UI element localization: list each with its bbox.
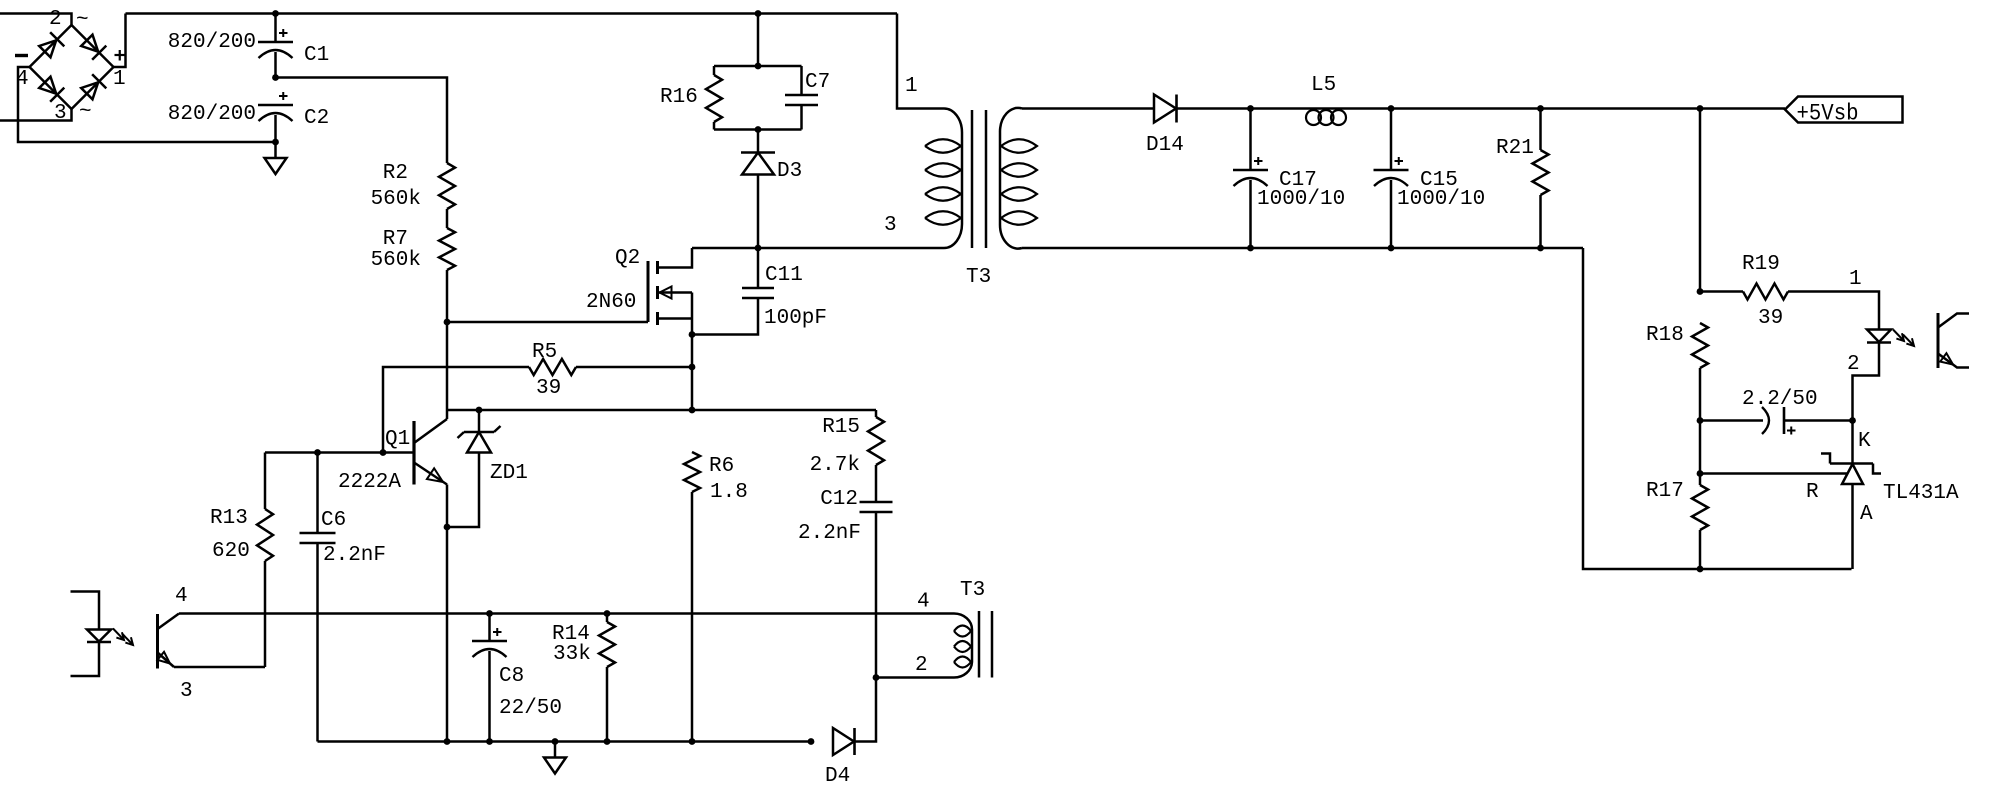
optocoupler2 emitter — [158, 653, 175, 668]
label C15 — [1420, 169, 1458, 192]
wire drain to T3 pin3 — [758, 247, 944, 250]
wire aux rail pin4 — [179, 612, 945, 615]
label TL431 A — [1860, 503, 1873, 526]
label C17 value — [1257, 188, 1345, 211]
label - minus — [15, 54, 28, 57]
label R7 — [383, 228, 408, 251]
optocoupler emitter arrow — [1940, 353, 1953, 364]
wire C1 to midnode — [274, 52, 277, 78]
label R5 value — [536, 377, 561, 400]
wire snubber bottom bar — [714, 128, 802, 131]
label pin 2 — [49, 8, 62, 31]
label T3 — [966, 266, 991, 289]
svg-text:~: ~ — [79, 101, 92, 124]
label Q1 — [385, 428, 410, 451]
wire cap 2.2 left lead — [1700, 419, 1763, 422]
wire collector rail — [447, 409, 876, 412]
wire R21 bottom lead — [1539, 195, 1542, 248]
bridge diode 3-1 — [81, 74, 106, 99]
wire R18b — [1699, 421, 1702, 474]
resistor R2 — [439, 163, 455, 209]
node C1-C2 mid — [272, 74, 279, 81]
label L5 — [1311, 74, 1336, 97]
svg-text:33k: 33k — [553, 643, 591, 666]
wire secondary top — [1022, 107, 1154, 110]
svg-text:R16: R16 — [660, 86, 698, 109]
power flag +5Vsb — [1785, 97, 1903, 123]
label ZD1 — [490, 462, 528, 485]
transistor Q1 emitter arrow — [427, 468, 443, 482]
label R19 value — [1758, 307, 1783, 330]
resistor R17 — [1692, 485, 1708, 530]
resistor R18 — [1692, 323, 1708, 368]
wire C6 to bottom rail — [316, 543, 319, 742]
resistor R15 — [868, 417, 884, 465]
transistor Q1 emitter — [414, 463, 447, 485]
svg-text:1: 1 — [905, 75, 918, 98]
wire R14 bottom — [606, 667, 609, 742]
wire Q2 source down — [691, 293, 694, 411]
svg-text:2: 2 — [1847, 353, 1860, 376]
wire Q2 drain to node — [692, 247, 758, 250]
label pin 4 — [16, 68, 29, 91]
label ~ top — [76, 9, 89, 32]
wire C11 bottom — [692, 298, 758, 335]
label C7 — [805, 71, 830, 94]
label pin 1 — [113, 68, 126, 91]
svg-text:39: 39 — [536, 377, 561, 400]
resistor R14 lead — [606, 614, 609, 623]
node gate drive — [444, 319, 451, 326]
wire R21 top lead — [1539, 109, 1542, 151]
wire R16 bottom lead — [713, 122, 716, 130]
label K — [1858, 430, 1871, 453]
transformer T3 aux winding — [945, 614, 972, 678]
wire TL431 anode — [1851, 484, 1854, 569]
optocoupler phototransistor bar — [1937, 313, 1940, 368]
wire R6 bottom — [691, 492, 694, 742]
wire AC line top — [0, 14, 72, 26]
resistor R6 — [684, 452, 700, 492]
svg-text:~: ~ — [76, 9, 89, 32]
svg-text:C11: C11 — [765, 264, 803, 287]
wire secondary return — [1583, 248, 1852, 569]
svg-text:820/200: 820/200 — [168, 31, 256, 54]
bridge diode 2-1 — [81, 35, 106, 60]
svg-text:2.2nF: 2.2nF — [798, 522, 861, 545]
wire TL431 ref — [1700, 472, 1847, 475]
wire LED cathode to K — [1853, 343, 1880, 421]
label C1 value — [168, 31, 256, 54]
wire R5 left leg — [383, 367, 529, 453]
label R14 — [552, 623, 590, 646]
diode D14 — [1154, 95, 1177, 123]
wire top HV rail — [126, 12, 898, 15]
label C12 — [820, 488, 858, 511]
label cap 2.2/50 value — [1742, 388, 1818, 411]
capacitor C7 — [785, 95, 818, 105]
label D14 — [1146, 134, 1184, 157]
node C2 bottom — [272, 139, 279, 146]
node C17 bottom — [1247, 245, 1254, 252]
svg-text:1: 1 — [1849, 268, 1862, 291]
svg-text:R21: R21 — [1496, 137, 1534, 160]
label D4 — [825, 765, 850, 788]
wire R17 top lead — [1699, 474, 1702, 486]
label R6 value — [710, 481, 748, 504]
label R5 — [532, 341, 557, 364]
wire C7 bottom lead — [800, 105, 803, 130]
zener ZD1 — [458, 426, 501, 453]
label ~ bottom — [79, 101, 92, 124]
svg-text:2: 2 — [49, 8, 62, 31]
node R17 bottom — [1697, 566, 1704, 573]
node cap left — [1697, 417, 1704, 424]
label R17 — [1646, 480, 1684, 503]
wire snubber to D3 — [757, 130, 760, 153]
svg-text:A: A — [1860, 503, 1873, 526]
label R13 value — [212, 540, 250, 563]
wire R19 to LED — [1788, 292, 1879, 330]
optocoupler2 LED leads — [71, 592, 100, 630]
label +5Vsb — [1797, 101, 1859, 127]
wire gate — [447, 321, 648, 324]
node K — [1849, 417, 1856, 424]
wire ZD1 top — [478, 410, 481, 432]
label R18 — [1646, 324, 1684, 347]
optocoupler2 LED arrows — [113, 629, 133, 646]
diode D4 — [833, 728, 855, 755]
svg-text:2: 2 — [915, 654, 928, 677]
transistor Q2 body stub — [658, 291, 693, 294]
resistor R5 — [529, 359, 576, 375]
transformer T3 core — [972, 110, 986, 248]
svg-text:K: K — [1858, 430, 1871, 453]
transformer T3 primary winding — [897, 14, 962, 249]
svg-text:1: 1 — [113, 68, 126, 91]
wire C12 down — [875, 512, 878, 678]
ground main — [544, 742, 566, 774]
transformer T3 aux core — [979, 611, 992, 678]
wire +5V down to R19 — [1699, 109, 1702, 292]
node C15 bottom — [1388, 245, 1395, 252]
svg-text:D14: D14 — [1146, 134, 1184, 157]
label R16 — [660, 86, 698, 109]
label aux pin2 — [915, 654, 928, 677]
label C17 — [1279, 169, 1317, 192]
wire R13 top — [264, 453, 267, 510]
label Q1 value — [338, 471, 401, 494]
resistor R19 — [1743, 284, 1788, 300]
svg-text:R13: R13 — [210, 507, 248, 530]
svg-text:T3: T3 — [966, 266, 991, 289]
svg-text:1000/10: 1000/10 — [1257, 188, 1345, 211]
node source rail — [689, 407, 696, 414]
node D4 rail — [808, 738, 815, 745]
label C8 — [499, 665, 524, 688]
wire bridge- to C2 bottom — [18, 67, 276, 142]
capacitor C6 lead — [316, 453, 319, 534]
label R21 — [1496, 137, 1534, 160]
label pin 3 — [54, 102, 67, 125]
label R15 value — [810, 454, 860, 477]
capacitor C15 — [1374, 157, 1409, 186]
svg-text:560k: 560k — [371, 249, 421, 272]
node C1 top — [272, 10, 279, 17]
node pin2-D4 — [873, 674, 880, 681]
transistor Q2 gate bar — [647, 261, 650, 322]
label TL431A — [1883, 482, 1959, 505]
transistor Q2 channel drain — [656, 261, 659, 274]
svg-text:TL431A: TL431A — [1883, 482, 1959, 505]
node gnd rail — [552, 738, 559, 745]
wire R16 top lead — [713, 66, 716, 75]
svg-text:R7: R7 — [383, 228, 408, 251]
svg-text:R2: R2 — [383, 162, 408, 185]
svg-text:39: 39 — [1758, 307, 1783, 330]
node C17 top — [1247, 105, 1254, 112]
wire R5 right — [576, 366, 692, 369]
node C6 top — [314, 449, 321, 456]
transistor Q2 source stub — [658, 317, 693, 320]
label T3 pin3 — [884, 214, 897, 237]
label TL431 R — [1806, 481, 1819, 504]
svg-text:4: 4 — [917, 591, 930, 614]
node snubber box bottom — [755, 126, 762, 133]
node +5Vsb tap — [1697, 105, 1704, 112]
wire gate node down — [446, 322, 449, 419]
optocoupler2 collector — [158, 614, 180, 630]
node emitter-ZD1 — [444, 524, 451, 531]
svg-text:560k: 560k — [371, 188, 421, 211]
capacitor C17 — [1233, 157, 1268, 186]
label C6 value — [323, 544, 386, 567]
svg-text:620: 620 — [212, 540, 250, 563]
bridge diode 4-2 — [39, 32, 64, 57]
node R21 bottom — [1537, 245, 1544, 252]
svg-text:2222A: 2222A — [338, 471, 401, 494]
svg-text:2.7k: 2.7k — [810, 454, 860, 477]
svg-text:2N60: 2N60 — [586, 291, 636, 314]
wire R2-R7 — [446, 209, 449, 228]
svg-text:3: 3 — [180, 680, 193, 703]
optocoupler collector — [1938, 314, 1969, 328]
label opto pin1 — [1849, 268, 1862, 291]
transistor Q2 drain stub — [658, 248, 693, 268]
capacitor C1 — [258, 29, 293, 58]
svg-text:ZD1: ZD1 — [490, 462, 528, 485]
wire bridge+ to rail — [114, 14, 126, 68]
node R21 top — [1537, 105, 1544, 112]
label D3 — [777, 160, 802, 183]
svg-text:C2: C2 — [304, 107, 329, 130]
wire opto2 emitter — [174, 666, 265, 669]
svg-text:R: R — [1806, 481, 1819, 504]
node R14 rail — [604, 738, 611, 745]
wire rail to C1 — [274, 14, 277, 43]
svg-text:R5: R5 — [532, 341, 557, 364]
wire R15-C12 — [875, 465, 878, 502]
wire D3 to drain node — [757, 175, 760, 249]
node R6 rail — [689, 738, 696, 745]
wire C15 bottom lead — [1390, 180, 1393, 248]
node ZD1 top — [476, 407, 483, 414]
optocoupler emitter — [1938, 354, 1969, 368]
wire Q1 base — [265, 451, 414, 454]
ground below C2 — [265, 142, 287, 174]
svg-text:D3: D3 — [777, 160, 802, 183]
svg-text:L5: L5 — [1311, 74, 1336, 97]
node emitter rail — [444, 738, 451, 745]
node R5-source — [689, 364, 696, 371]
label opto2 pin3 — [180, 680, 193, 703]
resistor R21 — [1533, 150, 1549, 195]
svg-text:100pF: 100pF — [764, 307, 827, 330]
label C2 — [304, 107, 329, 130]
svg-text:R19: R19 — [1742, 253, 1780, 276]
svg-text:1.8: 1.8 — [710, 481, 748, 504]
wire Q1 emitter down — [446, 485, 449, 742]
wire C15 top lead — [1390, 109, 1393, 171]
capacitor C11 — [742, 288, 774, 298]
label R7 value — [371, 249, 421, 272]
resistor R15 lead — [875, 410, 878, 417]
wire AC line bottom — [0, 109, 72, 121]
svg-text:C1: C1 — [304, 44, 329, 67]
wire D4 cathode up — [855, 678, 877, 742]
svg-text:C12: C12 — [820, 488, 858, 511]
wire aux pin2 — [876, 676, 954, 679]
label opto2 pin4 — [175, 585, 188, 608]
label C12 value — [798, 522, 861, 545]
svg-text:T3: T3 — [960, 579, 985, 602]
optocoupler LED arrows — [1893, 330, 1914, 347]
label opto pin2 — [1847, 353, 1860, 376]
label C2 value — [168, 103, 256, 126]
label R2 value — [371, 188, 421, 211]
wire R18 bottom lead — [1699, 368, 1702, 421]
transistor Q2 body arrow — [660, 287, 672, 299]
transistor Q1 collector — [414, 419, 447, 443]
wire C17 top lead — [1249, 109, 1252, 171]
wire R13 bottom — [264, 561, 267, 667]
wire ZD1 bottom — [447, 453, 479, 528]
node source-C11 — [689, 331, 696, 338]
shunt regulator TL431 — [1821, 454, 1881, 485]
label Q2 value — [586, 291, 636, 314]
node R18-R19 — [1697, 288, 1704, 295]
label C1 — [304, 44, 329, 67]
wire rail to snubber — [757, 14, 760, 67]
wire cap 2.2 right lead — [1784, 419, 1853, 422]
label R13 — [210, 507, 248, 530]
resistor R13 — [257, 509, 273, 561]
resistor R7 — [439, 228, 455, 270]
node C15 top — [1388, 105, 1395, 112]
svg-text:Q2: Q2 — [615, 247, 640, 270]
node ref-R17 — [1697, 470, 1704, 477]
wire primary ground rail — [318, 740, 812, 743]
svg-text:Q1: Q1 — [385, 428, 410, 451]
wire K to TL431 — [1851, 421, 1854, 464]
label R14 value — [553, 643, 591, 666]
wire midnode to R2 — [276, 78, 448, 164]
svg-text:4: 4 — [175, 585, 188, 608]
capacitor C2 — [258, 92, 293, 121]
node snubber box top — [755, 63, 762, 70]
label C11 — [765, 264, 803, 287]
wire secondary bottom rail — [1022, 247, 1583, 250]
node C8 top — [486, 610, 493, 617]
label C11 value — [764, 307, 827, 330]
node R5 leg — [380, 449, 387, 456]
label C8 value — [499, 697, 562, 720]
svg-text:R6: R6 — [709, 455, 734, 478]
wire R17 bottom lead — [1699, 530, 1702, 569]
bridge diode 4-3 — [39, 77, 64, 102]
transformer T3 secondary winding — [1000, 108, 1037, 249]
optocoupler LED — [1867, 330, 1891, 343]
svg-text:C6: C6 — [321, 509, 346, 532]
label R6 — [709, 455, 734, 478]
label C6 — [321, 509, 346, 532]
transistor Q1 base bar — [412, 421, 415, 485]
svg-text:C7: C7 — [805, 71, 830, 94]
node snubber top — [755, 10, 762, 17]
svg-text:1000/10: 1000/10 — [1397, 188, 1485, 211]
node drain — [755, 245, 762, 252]
bridge rectifier diamond — [30, 25, 114, 109]
capacitor C12 — [860, 502, 893, 512]
svg-text:D4: D4 — [825, 765, 850, 788]
svg-text:R17: R17 — [1646, 480, 1684, 503]
label C15 value — [1397, 188, 1485, 211]
wire R19 left lead — [1700, 290, 1743, 293]
svg-text:2.2nF: 2.2nF — [323, 544, 386, 567]
wire R7 to gate node — [446, 270, 449, 322]
inductor L5 — [1306, 110, 1346, 125]
label aux pin4 — [917, 591, 930, 614]
capacitor C11 top lead — [757, 248, 760, 288]
svg-text:2.2/50: 2.2/50 — [1742, 388, 1818, 411]
node C8 rail — [486, 738, 493, 745]
optocoupler2 phototransistor bar — [156, 614, 159, 669]
label R2 — [383, 162, 408, 185]
svg-text:22/50: 22/50 — [499, 697, 562, 720]
svg-text:820/200: 820/200 — [168, 103, 256, 126]
optocoupler2 emitter arrow — [157, 652, 170, 664]
wire C2 to bottom node — [274, 115, 277, 142]
wire C17 bottom lead — [1249, 180, 1252, 248]
capacitor C7 top lead — [800, 66, 803, 95]
capacitor C6 — [300, 533, 336, 543]
label T3 pin1 — [905, 75, 918, 98]
resistor R14 — [599, 622, 615, 667]
capacitor 2.2/50 — [1762, 407, 1796, 435]
svg-text:R18: R18 — [1646, 324, 1684, 347]
optocoupler2 LED lower lead — [71, 642, 100, 676]
optocoupler2 LED — [87, 630, 111, 643]
svg-text:3: 3 — [884, 214, 897, 237]
label Q2 — [615, 247, 640, 270]
label aux T3 — [960, 579, 985, 602]
diode D3 — [741, 153, 775, 175]
svg-text:C8: C8 — [499, 665, 524, 688]
label R19 — [1742, 253, 1780, 276]
transistor Q2 channel source — [656, 312, 659, 325]
resistor R16 — [706, 75, 722, 122]
node R14 top — [604, 610, 611, 617]
